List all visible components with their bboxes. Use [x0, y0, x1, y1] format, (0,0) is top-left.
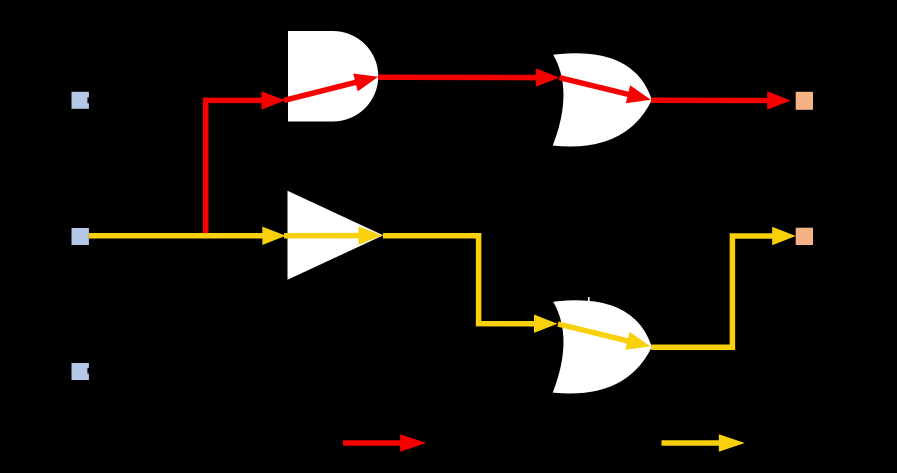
black wire stub overlapping input C: [87, 368, 89, 374]
yellow wire from U4 output, elbow up to output square T: [651, 236, 774, 347]
input square C (bottom-left): [72, 363, 89, 380]
yellow arrow across buffer to its apex: [284, 233, 362, 239]
AND gate U1: [288, 31, 378, 122]
red wire + arrow into AND gate lower input: [203, 98, 266, 104]
input square B (middle-left): [72, 228, 89, 245]
yellow arrow into output square T: [772, 227, 796, 245]
yellow arrow across OR gate U4 to its output: [558, 324, 630, 342]
red arrow across AND gate to its output: [284, 82, 358, 101]
legend yellow arrow: [662, 440, 723, 445]
OR gate U3 (top-right): [553, 53, 652, 146]
black wire stub overlapping input A: [87, 98, 89, 104]
input square A (top-left): [72, 92, 89, 109]
buffer U2 (triangle): [288, 191, 384, 280]
red wire + arrow from OR output to output square S: [651, 98, 768, 104]
OR gate U4 (bottom-right): [553, 300, 652, 393]
legend red arrow: [343, 440, 404, 445]
output square S (top-right): [796, 92, 813, 110]
yellow arrow into OR gate U4 input: [534, 315, 558, 333]
yellow wire + arrow from input B to buffer: [89, 233, 264, 239]
output square T (middle-right): [796, 228, 813, 245]
red wire + arrow from AND output to OR gate U3 input: [378, 74, 538, 80]
red wire: vertical riser from node at B wire: [203, 98, 209, 236]
tick artifact on OR gate U4 top edge: [588, 297, 590, 301]
red arrow across OR gate U3 to its output: [559, 78, 631, 95]
yellow wire from buffer output, elbow down: [383, 236, 536, 324]
